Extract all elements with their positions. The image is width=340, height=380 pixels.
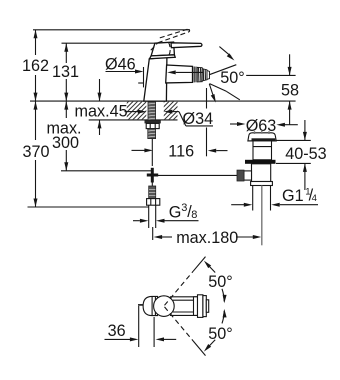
- svg-text:4: 4: [312, 193, 317, 204]
- o-ring: [245, 160, 276, 164]
- svg-text:36: 36: [108, 322, 126, 340]
- spout outer lines: [170, 296, 198, 298]
- Ø46 right arrow on spout root: [167, 70, 176, 74]
- hose double line: [148, 205, 150, 228]
- svg-text:Ø46: Ø46: [105, 56, 136, 74]
- knurled knob: [237, 170, 244, 181]
- tailpipe walls: [252, 186, 254, 211]
- bottom line of 370: [28, 206, 149, 208]
- dim 58: arrows and leader: [289, 54, 291, 75]
- dim line 370: [35, 101, 37, 140]
- swivel lower arc arrow (side view): [209, 84, 214, 98]
- Ø46 underline + arrow: [106, 71, 138, 73]
- extension line 131 level: [62, 42, 161, 44]
- svg-text:58: 58: [281, 81, 299, 99]
- dim 40-53: [276, 139, 311, 141]
- pop-up rod (vertical): [261, 186, 263, 246]
- threaded shank below nut: [148, 129, 156, 139]
- svg-text:50°: 50°: [208, 325, 232, 343]
- body circle: [154, 296, 175, 317]
- capsule chords: [151, 297, 153, 316]
- spout cylinder: [166, 65, 193, 83]
- faucet body: [144, 42, 202, 101]
- upper 50 deg arc with arrows (top view): [209, 266, 216, 273]
- svg-text:50°: 50°: [220, 69, 244, 87]
- dim 36: [138, 306, 140, 347]
- aerator knurl texture: [199, 68, 206, 82]
- svg-text:G1: G1: [282, 187, 304, 205]
- valve body: [252, 164, 271, 182]
- svg-text:8: 8: [191, 209, 197, 221]
- svg-text:max.180: max.180: [176, 229, 238, 247]
- lower 50 deg arc with arrows (top view): [209, 340, 216, 347]
- lever capsule: [143, 296, 157, 315]
- base tick: [138, 82, 144, 84]
- pop-up horizontal rod to drain: [152, 174, 237, 176]
- swivel upper arc arrow (side view): [219, 47, 231, 57]
- deck bottom line: [89, 119, 178, 121]
- arrows 131: [64, 43, 68, 52]
- svg-text:131: 131: [52, 63, 79, 81]
- dim line max300: [65, 101, 67, 118]
- flange dome: [248, 133, 276, 141]
- stub line left: [138, 304, 144, 306]
- svg-text:50°: 50°: [208, 273, 232, 291]
- spout inner lines: [173, 299, 194, 301]
- pop-up tee cross: [147, 168, 158, 183]
- lock nut: [146, 123, 159, 128]
- shank through deck (threaded): [148, 102, 156, 121]
- swivel upper limit line (side view): [209, 65, 236, 75]
- svg-text:G: G: [169, 203, 182, 221]
- svg-text:162: 162: [22, 57, 49, 75]
- svg-text:Ø63: Ø63: [246, 117, 277, 135]
- svg-text:116: 116: [168, 142, 194, 160]
- svg-text:Ø34: Ø34: [183, 110, 214, 128]
- svg-text:40-53: 40-53: [285, 145, 326, 163]
- G3/8 knurled connector: [149, 186, 156, 199]
- G3/8 arrows: [133, 220, 140, 222]
- aerator knurl: [197, 67, 209, 82]
- Ø63 left arrow: [230, 123, 237, 125]
- dim line 162: [35, 30, 37, 55]
- dashed swivel lines: [165, 271, 194, 341]
- body skirt: [251, 182, 273, 186]
- dim G1 1/4: [231, 204, 244, 206]
- Ø46 extension line: [143, 67, 145, 87]
- arrows 162: [34, 30, 38, 39]
- dim 116: [132, 149, 146, 151]
- Ø63 right arrow fed from 58 leader: [284, 124, 298, 126]
- solid ends of swivel lines: [193, 257, 205, 272]
- svg-text:max.45: max.45: [75, 103, 128, 121]
- washer under deck: [145, 120, 161, 123]
- spout ring band lines: [193, 67, 195, 83]
- cap band: [150, 55, 176, 59]
- lever arm: [171, 43, 202, 48]
- dim 58: spout outlet level extension line: [246, 74, 295, 76]
- lever base block: [151, 42, 174, 56]
- supply rod line: [151, 139, 153, 166]
- dashed raised lever: [151, 29, 190, 55]
- spout end assembly: [194, 295, 209, 318]
- connector hex nut: [147, 199, 160, 206]
- Ø34 leader from hole: [164, 110, 173, 114]
- arrows 370: [34, 101, 38, 110]
- dim max180: [152, 227, 154, 240]
- svg-text:300: 300: [52, 134, 79, 152]
- flange dark rim: [252, 138, 276, 141]
- neck: [253, 141, 272, 160]
- swivel lower limit line (side view): [210, 84, 227, 92]
- dim line 131: [65, 43, 67, 63]
- arrows max300: [64, 101, 68, 110]
- flange dots: [254, 131, 256, 134]
- deck hatch right part: [96, 95, 212, 125]
- side nub: [244, 171, 252, 180]
- extension line top (lever raised tip level): [33, 29, 190, 31]
- deck top line: [30, 100, 296, 102]
- deck hatch left part: [96, 95, 212, 125]
- flange underside line: [248, 140, 276, 142]
- max45 leader to deck hole: [125, 111, 140, 113]
- svg-text:370: 370: [22, 143, 49, 161]
- dim max45 vertical: [99, 79, 101, 101]
- bottom line of max300 / pop-up rod line: [61, 170, 154, 172]
- rod to connector: [151, 182, 153, 187]
